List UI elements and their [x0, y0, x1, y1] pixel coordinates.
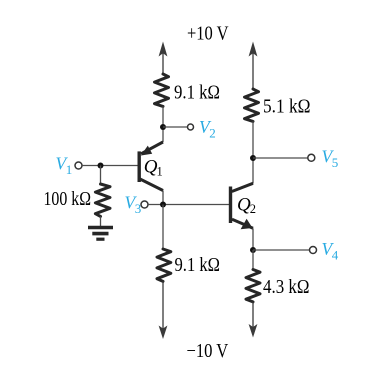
wire: V3 terminal through node to Q2 base [148, 204, 229, 206]
wire: Q2 emitter to V4 node [252, 228, 254, 250]
terminal circle V1 [75, 162, 82, 169]
terminal circle V3 [141, 201, 148, 208]
terminal circle V2 [188, 124, 194, 130]
wire: R4 bottom to V5 node [252, 121, 254, 183]
wire: R1 bottom to V2 node [162, 106, 164, 142]
svg-text:9.1 kΩ: 9.1 kΩ [175, 255, 221, 276]
wire: V5 stub [253, 157, 308, 159]
svg-text:4.3 kΩ: 4.3 kΩ [263, 277, 310, 298]
transistor Q2 (NPN) [231, 183, 254, 229]
wire: Q1 collector down to V3 node [162, 191, 164, 205]
node: V4 junction dot [250, 247, 256, 253]
svg-text:9.1 kΩ: 9.1 kΩ [174, 83, 220, 104]
resistor R4 5.1 kOhm [245, 89, 259, 121]
wire: right +10V rail arrow [249, 42, 258, 90]
terminal circle V4 [310, 247, 317, 254]
transistor Q1 (PNP) [139, 142, 163, 191]
wire: V4 node down to R5 [252, 250, 254, 270]
wire: R2 bottom to ground [100, 216, 102, 226]
terminal circle V5 [308, 154, 315, 161]
node: V1 / 100k junction dot [98, 163, 104, 169]
svg-text:100 kΩ: 100 kΩ [44, 189, 92, 210]
wire: V4 stub [253, 249, 310, 251]
wire: junction down to R2 [100, 166, 102, 185]
resistor R5 4.3 kOhm [246, 270, 260, 302]
wire: R3 to -10V arrow (left) [159, 281, 168, 339]
resistor R3 9.1 kOhm (bottom left) [157, 249, 171, 281]
wire: left +10V rail arrow [159, 42, 168, 75]
node: V3 junction dot [160, 202, 166, 208]
resistor R2 100 kOhm [95, 184, 110, 216]
svg-text:+10 V: +10 V [187, 23, 229, 44]
wire: V1 terminal to Q1 base [82, 165, 138, 167]
wire: V2 stub [163, 126, 188, 128]
wire: V3 node down to R3 [162, 205, 164, 250]
node: V5 junction dot [250, 155, 256, 161]
wire: R5 to -10V arrow (right) [249, 302, 258, 338]
ground symbol [88, 228, 113, 240]
resistor R1 9.1 kOhm (top left) [155, 74, 169, 106]
svg-text:−10 V: −10 V [187, 341, 229, 362]
svg-text:5.1 kΩ: 5.1 kΩ [263, 96, 311, 117]
node: V2 junction dot [160, 124, 166, 130]
